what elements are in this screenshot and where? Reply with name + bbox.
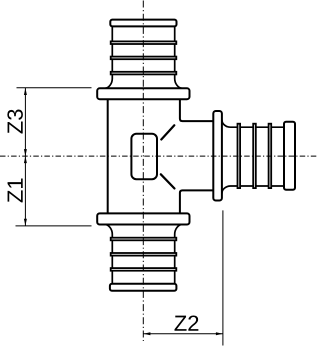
bottom port flare right from collar [175,225,183,285]
label window [131,134,157,179]
body right wall upper with corner to branch shoulder [180,99,214,121]
dimension line Z2 horizontal [143,333,223,335]
body right wall lower with corner to branch shoulder [180,190,214,214]
label Z1 [8,179,23,203]
bottom port flare left from collar [105,225,113,285]
right branch barb rib 1 [238,124,241,188]
bottom port barb rib 3 [111,268,177,271]
top port neck right wall with flare into collar [175,26,183,88]
arrowhead Z2 right [216,332,223,335]
right branch barb rib 2 [253,124,256,188]
extension line Z1 bottom [16,225,92,227]
top port barb rib 1 [111,41,177,44]
label Z3 [7,109,23,133]
top port neck left wall with flare into collar [105,26,113,88]
horizontal centerline [0,155,318,157]
bottom port stop collar [97,213,189,224]
arrowhead Z2 left [143,332,150,335]
arrowhead center up [24,156,27,163]
right branch neck top wall with flare from collar [222,120,285,128]
bottom port barb rib 2 [111,253,177,256]
vertical centerline [142,1,144,342]
extension line Z2 right [222,210,224,345]
label Z2 [174,315,198,330]
junction chamfer edge upper [161,125,174,139]
top port end cap [110,20,176,27]
junction chamfer edge lower [161,174,175,188]
right branch barb rib 3 [269,124,272,188]
right branch end cap [284,122,295,190]
arrowhead Z1 down [24,219,27,226]
right branch neck bottom wall with flare from collar [222,186,285,194]
top port stop collar [97,88,189,99]
top port barb rib 3 [111,72,177,75]
dimension line Z3/Z1 vertical [24,88,26,226]
body left wall [107,99,109,214]
top port barb rib 2 [111,57,177,60]
arrowhead Z3 up [24,88,27,95]
right branch stop collar [213,111,222,201]
bottom port barb rib 1 [111,238,177,241]
arrowhead center down [24,149,27,156]
bottom port end cap [110,284,176,291]
extension line Z3 top [17,87,92,89]
